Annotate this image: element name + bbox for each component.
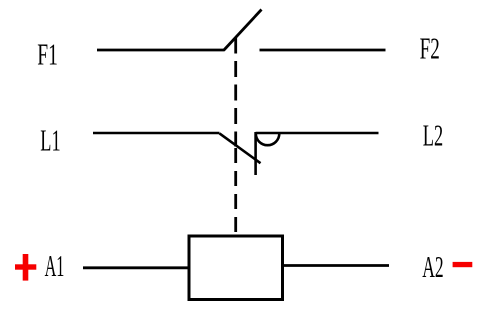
svg-text:L1: L1 (40, 123, 60, 158)
polarity plus (+) (15, 254, 36, 281)
svg-text:A1: A1 (45, 248, 65, 283)
polarity minus (-) (453, 262, 473, 267)
fixed contact bar (254, 132, 257, 175)
arc-suppression semicircle (256, 134, 279, 146)
switch F blade (moving contact) (224, 10, 262, 51)
wire A2 lead (283, 264, 390, 267)
wire L2 lead (256, 132, 379, 135)
coil K (rectangle) (189, 236, 283, 300)
wire A1 lead (83, 266, 189, 269)
svg-text:F1: F1 (37, 37, 58, 72)
mechanical linkage (dashed, upper part) (234, 38, 237, 147)
svg-text:F2: F2 (420, 30, 440, 65)
wire F1 lead (97, 49, 224, 52)
svg-text:L2: L2 (423, 117, 443, 152)
wire L1 lead (93, 132, 220, 135)
mechanical linkage (dashed, lower part) (234, 148, 237, 233)
switch L blade (moving contact) (220, 133, 261, 163)
wire F2 lead (260, 49, 386, 52)
svg-text:A2: A2 (422, 249, 443, 284)
